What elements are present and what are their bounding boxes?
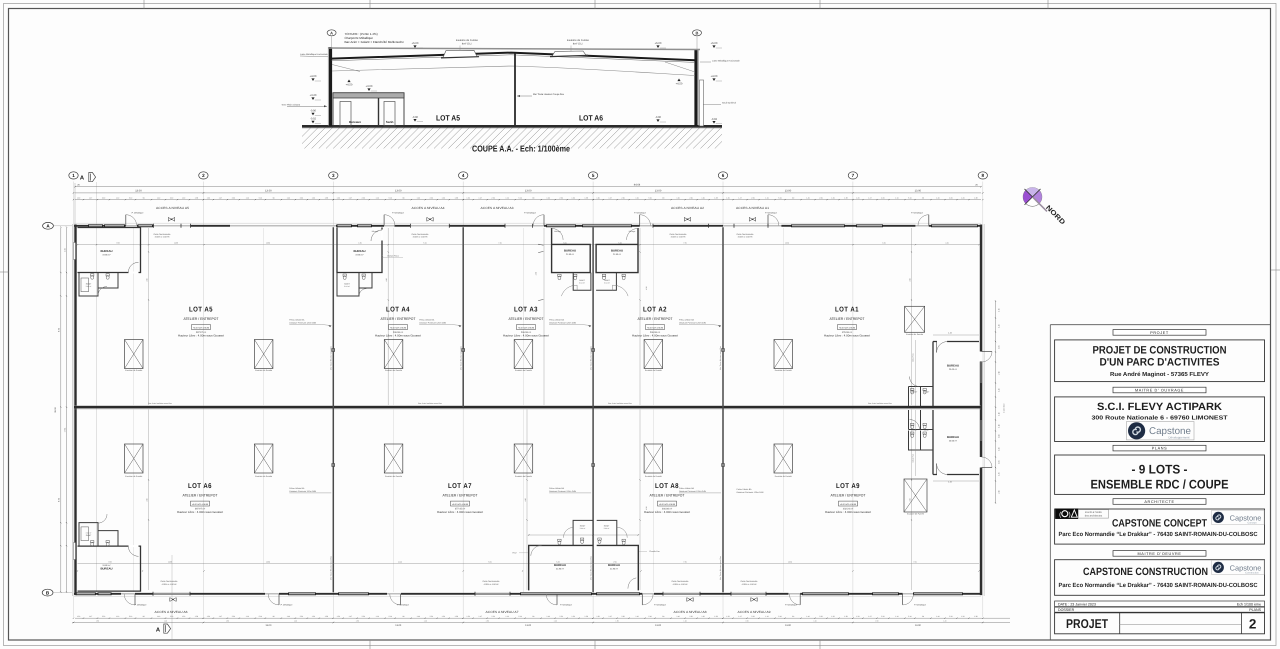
- svg-text:4m² S.U.: 4m² S.U.: [573, 42, 584, 45]
- svg-text:Mur Toute Hauteur sous Bac: Mur Toute Hauteur sous Bac: [719, 556, 722, 580]
- svg-text:+0.00 NGF=196.96: +0.00 NGF=196.96: [839, 326, 855, 329]
- svg-text:2.20: 2.20: [232, 615, 235, 618]
- svg-text:1.05: 1.05: [997, 460, 1000, 463]
- svg-text:.90: .90: [272, 615, 274, 618]
- svg-text:13.00: 13.00: [915, 624, 922, 627]
- svg-text:ACCES A NIVEAU A8: ACCES A NIVEAU A8: [674, 610, 707, 614]
- title block: construction box: [1055, 560, 1265, 596]
- svg-text:2.20: 2.20: [102, 196, 105, 199]
- svg-text:6.20: 6.20: [882, 242, 885, 245]
- lot A4 bureau block: [337, 228, 382, 297]
- svg-text:19.86 m²: 19.86 m²: [102, 564, 111, 567]
- svg-text:2.20: 2.20: [997, 490, 1000, 493]
- svg-text:Ossature Porteuse 120m DdN: Ossature Porteuse 120m DdN: [737, 491, 764, 494]
- svg-text:6: 6: [722, 173, 725, 178]
- svg-text:Privé: Privé: [512, 552, 516, 555]
- svg-text:2.20: 2.20: [300, 196, 303, 199]
- svg-text:BUREAU: BUREAU: [947, 364, 959, 368]
- svg-text:1.94m 60cm: 1.94m 60cm: [1003, 403, 1006, 413]
- svg-text:SANIT: SANIT: [579, 279, 585, 282]
- svg-text:1.38: 1.38: [974, 196, 977, 199]
- svg-text:1.38: 1.38: [195, 615, 198, 618]
- svg-text:ACCES A NIVEAU A6: ACCES A NIVEAU A6: [155, 610, 188, 614]
- svg-text:4m² S.U.: 4m² S.U.: [462, 42, 473, 45]
- svg-text:Préau Urbain BA: Préau Urbain BA: [549, 487, 565, 490]
- svg-text:+0.00 NGF=196.96: +0.00 NGF=196.96: [518, 326, 534, 329]
- svg-text:Hauteur Libre : 4.00m sous Gou: Hauteur Libre : 4.00m sous Gousset: [503, 334, 549, 338]
- svg-text:Mur Toute Hauteur sous Bac: Mur Toute Hauteur sous Bac: [330, 346, 333, 370]
- svg-text:13.00: 13.00: [265, 190, 272, 193]
- svg-text:4.40: 4.40: [948, 480, 952, 483]
- svg-text:PLANS: PLANS: [1152, 447, 1167, 451]
- lot A5 bureau block: [78, 228, 141, 273]
- svg-text:Ossature Porteuse 120m DdN: Ossature Porteuse 120m DdN: [419, 321, 446, 324]
- svg-text:2.20: 2.20: [560, 615, 563, 618]
- svg-text:4.40: 4.40: [948, 332, 952, 335]
- svg-text:1.20: 1.20: [467, 196, 470, 199]
- svg-text:1.47: 1.47: [349, 615, 352, 618]
- svg-text:17.84: 17.84: [63, 428, 66, 433]
- svg-text:1.00: 1.00: [997, 434, 1000, 437]
- svg-text:1.40: 1.40: [676, 196, 679, 199]
- svg-text:Ossature Porteuse 120m DdN: Ossature Porteuse 120m DdN: [549, 490, 576, 493]
- svg-text:Porte Sectionnelle: Porte Sectionnelle: [161, 580, 179, 583]
- lot A7 bureau block: [529, 545, 593, 590]
- section: office door leaves: [340, 102, 351, 127]
- svg-text:Préau Urbain BA: Préau Urbain BA: [549, 318, 565, 321]
- svg-text:12.60: 12.60: [785, 242, 789, 245]
- svg-text:1.70: 1.70: [997, 308, 1000, 311]
- svg-text:.90: .90: [402, 615, 404, 618]
- svg-text:5.10: 5.10: [908, 196, 911, 199]
- svg-text:3.50m x 4.50 Ht: 3.50m x 4.50 Ht: [155, 236, 170, 239]
- svg-text:Ménage: Ménage: [372, 230, 379, 233]
- svg-text:Exutoire de Fumée: Exutoire de Fumée: [385, 475, 403, 478]
- svg-text:5.10: 5.10: [259, 615, 262, 618]
- title block: MAITRE D OEUVRE header: [1113, 551, 1206, 557]
- title block: project box: [1055, 340, 1265, 382]
- svg-text:2.20: 2.20: [560, 196, 563, 199]
- svg-text:13.00: 13.00: [525, 624, 532, 627]
- svg-text:8: 8: [982, 173, 985, 178]
- svg-text:1.10: 1.10: [635, 196, 638, 199]
- svg-text:1.20: 1.20: [831, 615, 834, 618]
- svg-text:1.10: 1.10: [116, 196, 119, 199]
- svg-text:2.20: 2.20: [362, 615, 365, 618]
- svg-text:5.10: 5.10: [129, 615, 132, 618]
- svg-text:P. Métallique: P. Métallique: [524, 212, 537, 215]
- svg-text:P. Métallique: P. Métallique: [397, 603, 410, 606]
- svg-text:P. Métallique: P. Métallique: [911, 212, 924, 215]
- svg-text:Début Plan: Début Plan: [912, 353, 915, 361]
- svg-text:LOT A2: LOT A2: [643, 307, 667, 314]
- plan: top overall dimension line: [75, 186, 981, 188]
- svg-text:ATELIER / ENTREPOT: ATELIER / ENTREPOT: [650, 494, 686, 498]
- svg-text:Hauteur Libre : 4.00m sous Gou: Hauteur Libre : 4.00m sous Gousset: [375, 334, 421, 338]
- svg-text:.90: .90: [402, 196, 404, 199]
- svg-text:2.20: 2.20: [170, 615, 173, 618]
- svg-text:12.60: 12.60: [788, 560, 792, 563]
- svg-text:MAITRE D' OUVRAGE: MAITRE D' OUVRAGE: [1135, 389, 1184, 393]
- svg-text:1.20: 1.20: [856, 615, 859, 618]
- plan: row bubble B: [42, 589, 53, 596]
- svg-text:1.47: 1.47: [608, 196, 611, 199]
- svg-text:2.10: 2.10: [997, 371, 1000, 374]
- svg-text:5.10: 5.10: [129, 196, 132, 199]
- svg-text:5.10: 5.10: [778, 615, 781, 618]
- lot A3 bureau block: [552, 228, 591, 273]
- svg-text:S.C.I. FLEVY ACTIPARK: S.C.I. FLEVY ACTIPARK: [1097, 401, 1222, 413]
- svg-text:Bac Acier Isolation sous Bac: Bac Acier Isolation sous Bac: [868, 402, 892, 405]
- svg-text:Exutoire de Fumée: Exutoire de Fumée: [907, 513, 925, 516]
- svg-text:BUREAU: BUREAU: [611, 249, 623, 253]
- svg-text:Mur Toute Hauteur sous Bac: Mur Toute Hauteur sous Bac: [589, 556, 592, 580]
- svg-text:5.10: 5.10: [519, 615, 522, 618]
- svg-text:-0.02: -0.02: [711, 118, 718, 121]
- svg-text:2.20: 2.20: [689, 615, 692, 618]
- svg-text:4.00m x 4.50 Ht: 4.00m x 4.50 Ht: [484, 583, 499, 586]
- svg-text:1.80: 1.80: [358, 242, 361, 245]
- svg-text:3.64 m²: 3.64 m²: [579, 282, 585, 285]
- svg-text:4.00m x 4.50 Ht: 4.00m x 4.50 Ht: [162, 583, 177, 586]
- svg-text:.90: .90: [922, 615, 924, 618]
- svg-text:+0.00 NGF=196.96: +0.00 NGF=196.96: [647, 326, 663, 329]
- svg-text:Parc Eco Normandie “Le Drakkar: Parc Eco Normandie “Le Drakkar” - 76430 …: [1059, 582, 1259, 589]
- svg-text:5.10: 5.10: [423, 242, 426, 245]
- svg-text:Exutoire de Fumée: Exutoire de Fumée: [515, 369, 533, 372]
- svg-text:ACCES A NIVEAU A2: ACCES A NIVEAU A2: [671, 206, 704, 210]
- svg-text:3.64 m²: 3.64 m²: [86, 285, 92, 288]
- plan: left dimension chains: [60, 228, 62, 592]
- svg-text:1.20: 1.20: [961, 196, 964, 199]
- plan: right wall exterior doors: [982, 351, 993, 353]
- svg-text:-0.00: -0.00: [412, 116, 419, 119]
- svg-text:Porte Sectionnelle: Porte Sectionnelle: [412, 233, 430, 236]
- svg-text:5.10: 5.10: [519, 196, 522, 199]
- svg-text:1.47: 1.47: [738, 196, 741, 199]
- section: left wall: [329, 47, 332, 126]
- svg-text:Exutoire de Fumée: Exutoire de Fumée: [645, 475, 663, 478]
- svg-text:3.64 m²: 3.64 m²: [604, 282, 610, 285]
- svg-text:1.10: 1.10: [765, 615, 768, 618]
- svg-text:ATELIER / ENTREPOT: ATELIER / ENTREPOT: [443, 494, 479, 498]
- svg-text:ACCES A NIVEAU A4: ACCES A NIVEAU A4: [412, 206, 445, 210]
- svg-text:13.00: 13.00: [655, 190, 662, 193]
- svg-text:2.20: 2.20: [819, 196, 822, 199]
- svg-text:1.38: 1.38: [195, 196, 198, 199]
- section: ground slab: [302, 125, 722, 128]
- svg-text:.90: .90: [272, 196, 274, 199]
- svg-text:1.10: 1.10: [997, 424, 1000, 427]
- svg-text:Porte Sectionnelle: Porte Sectionnelle: [741, 580, 759, 583]
- svg-text:P. Métallique: P. Métallique: [560, 603, 573, 606]
- title block: maitre d ouvrage header: [1113, 387, 1206, 393]
- svg-text:2.20: 2.20: [689, 196, 692, 199]
- plan: bottom facade sectional light zones: [153, 593, 766, 595]
- svg-text:4.50: 4.50: [524, 498, 527, 501]
- svg-text:1.40: 1.40: [936, 196, 939, 199]
- svg-text:BUREAU: BUREAU: [608, 563, 620, 567]
- svg-text:1.20: 1.20: [77, 615, 80, 618]
- svg-text:.90: .90: [532, 196, 534, 199]
- svg-text:13.00: 13.00: [655, 624, 662, 627]
- svg-text:Porte Sectionnelle: Porte Sectionnelle: [483, 580, 501, 583]
- svg-text:1.40: 1.40: [547, 196, 550, 199]
- svg-text:1.38: 1.38: [585, 196, 588, 199]
- svg-text:+0.00 NGF=196.96: +0.00 NGF=196.96: [390, 326, 406, 329]
- svg-text:13.00: 13.00: [265, 624, 272, 627]
- svg-text:1.40: 1.40: [287, 196, 290, 199]
- svg-text:LOT A5: LOT A5: [189, 307, 213, 314]
- svg-text:1.40: 1.40: [287, 615, 290, 618]
- svg-text:LOT A6: LOT A6: [579, 114, 603, 123]
- title block: architecte box: [1055, 509, 1265, 544]
- svg-text:1.38: 1.38: [325, 196, 328, 199]
- svg-text:Hauteur Libre : 4.00m sous Gou: Hauteur Libre : 4.00m sous Gousset: [437, 510, 483, 514]
- plan: access bowtie symbols bottom: [170, 598, 176, 602]
- svg-text:2.20: 2.20: [621, 196, 624, 199]
- svg-text:4.00m x 4.50 Ht: 4.00m x 4.50 Ht: [742, 583, 757, 586]
- svg-text:): ): [1069, 512, 1071, 519]
- svg-text:5.10: 5.10: [389, 615, 392, 618]
- svg-text:+4.50: +4.50: [676, 83, 683, 86]
- plan: right exterior wall: [980, 225, 982, 596]
- svg-text:1: 1: [72, 173, 75, 178]
- capstone concept logo: [1212, 510, 1265, 524]
- svg-text:Bac Acier Isolation sous Bac: Bac Acier Isolation sous Bac: [608, 402, 632, 405]
- svg-text:2.20: 2.20: [819, 615, 822, 618]
- svg-text:BUREAU: BUREAU: [564, 249, 576, 253]
- svg-text:2.20: 2.20: [430, 196, 433, 199]
- svg-text:20.00 m²: 20.00 m²: [949, 368, 958, 371]
- svg-text:Préau Urbain BA: Préau Urbain BA: [289, 318, 305, 321]
- lot A2 bureau block: [596, 228, 638, 273]
- plan: middle dividing wall: [74, 406, 981, 408]
- svg-text:Exutoire de Fumée: Exutoire de Fumée: [775, 369, 793, 372]
- plan: vertical grid construction lines: [74, 182, 983, 618]
- svg-text:1.20: 1.20: [442, 615, 445, 618]
- svg-text:2.20: 2.20: [170, 196, 173, 199]
- svg-text:2.20: 2.20: [621, 615, 624, 618]
- svg-text:1.20: 1.20: [182, 196, 185, 199]
- svg-text:Préau Urbain BA: Préau Urbain BA: [419, 318, 435, 321]
- svg-text:1.47: 1.47: [868, 196, 871, 199]
- svg-text:1.47: 1.47: [349, 196, 352, 199]
- svg-text:Lame Métallique Horizontale: Lame Métallique Horizontale: [712, 59, 741, 62]
- svg-text:Cloison Placo: Cloison Placo: [387, 255, 399, 258]
- svg-text:1.40: 1.40: [806, 615, 809, 618]
- svg-text:Porte Sectionnelle: Porte Sectionnelle: [670, 233, 688, 236]
- svg-text:SANIT: SANIT: [580, 525, 586, 528]
- svg-text:1.20: 1.20: [572, 196, 575, 199]
- lot A8 bureau block: [597, 545, 639, 590]
- section: office block left (bureaux/sanit): [333, 93, 404, 126]
- svg-text:Ossature Porteuse 120m DdN: Ossature Porteuse 120m DdN: [289, 490, 316, 493]
- plan: row bubble A: [43, 222, 54, 229]
- svg-text:1.10: 1.10: [376, 615, 379, 618]
- svg-text:.90: .90: [792, 615, 794, 618]
- svg-text:1.10: 1.10: [635, 615, 638, 618]
- svg-text:ATELIER / ENTREPOT: ATELIER / ENTREPOT: [830, 317, 866, 321]
- fold marks sides: [0, 271, 9, 273]
- svg-text:Exutoire de Fumée: Exutoire de Fumée: [125, 369, 143, 372]
- svg-text:LOT A4: LOT A4: [386, 307, 410, 314]
- svg-text:Développement: Développement: [1168, 435, 1189, 439]
- svg-text:2.20: 2.20: [492, 196, 495, 199]
- svg-text:1.20: 1.20: [596, 196, 599, 199]
- svg-text:3.64 m²: 3.64 m²: [580, 527, 586, 530]
- svg-text:ATELIER / ENTREPOT: ATELIER / ENTREPOT: [183, 494, 219, 498]
- svg-text:SANIT: SANIT: [924, 391, 930, 394]
- svg-text:10.85: 10.85: [174, 242, 178, 245]
- svg-text:4.50: 4.50: [146, 278, 149, 281]
- title block: plans box: [1055, 455, 1265, 494]
- svg-text:1.38: 1.38: [585, 615, 588, 618]
- svg-text:2.20: 2.20: [232, 196, 235, 199]
- svg-text:BUREAU: BUREAU: [354, 249, 366, 253]
- plan: bottom facade personnel doors: [134, 594, 136, 605]
- svg-text:Exutoire de Fumée: Exutoire de Fumée: [125, 475, 143, 478]
- svg-text:.90: .90: [792, 196, 794, 199]
- svg-text:1.38: 1.38: [325, 615, 328, 618]
- svg-text:SANIT: SANIT: [604, 279, 610, 282]
- svg-text:3.50m x 4.50 Ht: 3.50m x 4.50 Ht: [738, 236, 753, 239]
- svg-text:1.40: 1.40: [547, 615, 550, 618]
- svg-text:2.20: 2.20: [881, 615, 884, 618]
- svg-text:1.47: 1.47: [219, 615, 222, 618]
- plan: left exterior wall: [74, 225, 76, 596]
- svg-text:2.20: 2.20: [949, 615, 952, 618]
- svg-text:1.47: 1.47: [479, 196, 482, 199]
- svg-text:+0.00 NGF=196.96: +0.00 NGF=196.96: [840, 503, 856, 506]
- svg-text:5.10: 5.10: [259, 196, 262, 199]
- svg-text:Préau Urbain BA: Préau Urbain BA: [679, 318, 695, 321]
- svg-text:DATE : 23 Janvier 2023: DATE : 23 Janvier 2023: [1058, 602, 1096, 606]
- svg-text:ATELIER / ENTREPOT: ATELIER / ENTREPOT: [509, 317, 545, 321]
- svg-text:+6.00: +6.00: [655, 42, 662, 45]
- plan: bottom facade dark wall segments: [74, 593, 981, 595]
- svg-text:P. Métallique: P. Métallique: [914, 603, 927, 606]
- svg-text:1.20: 1.20: [596, 615, 599, 618]
- svg-text:+0.00 NGF=196.96: +0.00 NGF=196.96: [659, 503, 675, 506]
- svg-text:Ménage: Ménage: [554, 230, 561, 233]
- svg-text:+6.00: +6.00: [711, 42, 718, 45]
- svg-text:- 9 LOTS -: - 9 LOTS -: [1132, 463, 1188, 477]
- plan: top detail dimension chain: [75, 199, 981, 201]
- title block: SCI box: [1055, 397, 1265, 442]
- svg-text:Hauteur Libre : 4.00m sous Gou: Hauteur Libre : 4.00m sous Gousset: [825, 510, 871, 514]
- section: centre fire wall post: [514, 54, 516, 127]
- svg-text:5.10: 5.10: [908, 615, 911, 618]
- svg-text:1.40: 1.40: [157, 196, 160, 199]
- svg-text:ACCES A NIVEAU A1: ACCES A NIVEAU A1: [736, 206, 769, 210]
- svg-text:COUPE A.A. - Ech: 1/100ème: COUPE A.A. - Ech: 1/100ème: [472, 143, 570, 153]
- svg-text:SANIT: SANIT: [604, 525, 610, 528]
- svg-text:1.40: 1.40: [936, 615, 939, 618]
- plan: top facade personnel doors: [125, 215, 127, 226]
- svg-text:4.50: 4.50: [146, 498, 149, 501]
- svg-text:7: 7: [852, 173, 855, 178]
- svg-text:4.40: 4.40: [945, 242, 948, 245]
- svg-text:Parc Eco Normandie “Le Drakkar: Parc Eco Normandie “Le Drakkar” - 76430 …: [1059, 531, 1259, 538]
- svg-text:1.20: 1.20: [831, 196, 834, 199]
- section: roof line: [332, 53, 696, 61]
- svg-text:1.47: 1.47: [219, 196, 222, 199]
- title block: PLANS header: [1113, 445, 1206, 451]
- plan: smoke vent lot A1 extra: [905, 306, 925, 332]
- svg-text:+4.00: +4.00: [711, 75, 718, 78]
- plan: right dimension chains: [995, 301, 997, 503]
- svg-text:1.20: 1.20: [312, 196, 315, 199]
- svg-text:1.20: 1.20: [312, 615, 315, 618]
- svg-text:2.20: 2.20: [362, 196, 365, 199]
- svg-text:ACCES A NIVEAU A9: ACCES A NIVEAU A9: [738, 610, 771, 614]
- svg-text:.90: .90: [662, 196, 664, 199]
- svg-text:1.10: 1.10: [506, 615, 509, 618]
- section: acrotere top line: [328, 48, 700, 50]
- svg-text:1.20: 1.20: [572, 615, 575, 618]
- svg-text:Bac Acier Isolation sous Bac: Bac Acier Isolation sous Bac: [148, 402, 172, 405]
- svg-text:5: 5: [592, 173, 595, 178]
- svg-text:.90: .90: [922, 196, 924, 199]
- svg-text:5.10: 5.10: [389, 196, 392, 199]
- svg-text:Sanit.: Sanit.: [386, 120, 394, 124]
- svg-text:1.10: 1.10: [246, 196, 249, 199]
- plan: top facade window sills: [88, 224, 978, 227]
- svg-text:BUREAU: BUREAU: [554, 563, 566, 567]
- svg-text:CAPSTONE CONSTRUCTION: CAPSTONE CONSTRUCTION: [1083, 566, 1208, 578]
- svg-text:SANIT: SANIT: [912, 429, 918, 432]
- svg-text:BUREAU: BUREAU: [101, 249, 113, 253]
- svg-text:Ech 1/100 ème: Ech 1/100 ème: [1237, 602, 1261, 606]
- lot A9 bureau block: [933, 410, 979, 475]
- plan: access bowtie symbols top: [168, 217, 174, 221]
- svg-text:+3.00: +3.00: [366, 85, 373, 88]
- svg-text:ACCES A NIVEAU A7: ACCES A NIVEAU A7: [486, 610, 519, 614]
- svg-text:4.50: 4.50: [909, 278, 912, 281]
- fold marks top: [143, 0, 145, 9]
- svg-text:Capstone: Capstone: [1230, 513, 1262, 522]
- svg-text:1.38: 1.38: [844, 615, 847, 618]
- svg-text:Exutoire de Fumée: Exutoire de Fumée: [255, 369, 273, 372]
- svg-text:1.38: 1.38: [455, 196, 458, 199]
- svg-text:LOT A7: LOT A7: [448, 483, 472, 490]
- svg-text:Ossature Porteuse 120m DdN: Ossature Porteuse 120m DdN: [289, 321, 316, 324]
- svg-text:2.20: 2.20: [751, 615, 754, 618]
- plan: bottom facade window sills: [76, 592, 963, 595]
- svg-text:ATELIER / ENTREPOT: ATELIER / ENTREPOT: [381, 317, 417, 321]
- section: skylight 2: [552, 51, 586, 56]
- svg-text:5.60: 5.60: [488, 560, 491, 563]
- svg-text:1.10: 1.10: [116, 615, 119, 618]
- svg-text:PLANS: PLANS: [1249, 608, 1261, 612]
- svg-text:Hauteur Libre : 4.00m sous Gou: Hauteur Libre : 4.00m sous Gousset: [632, 334, 678, 338]
- svg-text:Bureaux: Bureaux: [349, 120, 361, 124]
- svg-text:-0.02: -0.02: [310, 118, 317, 121]
- svg-text:36.00: 36.00: [54, 406, 57, 412]
- svg-text:ACCES A NIVEAU A5: ACCES A NIVEAU A5: [156, 206, 189, 210]
- svg-text:12.80: 12.80: [266, 242, 270, 245]
- svg-text:Exutoire de Fumée: Exutoire de Fumée: [385, 369, 403, 372]
- svg-text:1.10: 1.10: [765, 196, 768, 199]
- svg-text:2.20: 2.20: [102, 615, 105, 618]
- svg-text:A: A: [330, 30, 333, 35]
- svg-text:1.47: 1.47: [868, 615, 871, 618]
- svg-text:3.95: 3.95: [108, 560, 111, 563]
- svg-text:2.20: 2.20: [492, 615, 495, 618]
- svg-text:Début Plan: Début Plan: [912, 454, 915, 462]
- plan: top facade wall base: [74, 225, 981, 227]
